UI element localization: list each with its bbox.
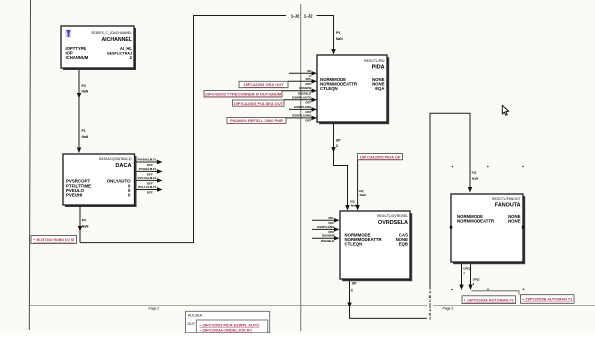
svg-text:NaN: NaN (336, 37, 343, 41)
svg-text:PVLLALM.FL: PVLLALM.FL (138, 185, 157, 189)
block AICHANNEL (61, 26, 136, 70)
svg-text:ESWTLGNS: ESWTLGNS (317, 225, 334, 229)
block OVRDSELA (340, 211, 412, 281)
svg-text:OFF: OFF (147, 191, 153, 195)
block PIDA (317, 55, 389, 124)
link box PIDA OP (358, 153, 403, 159)
svg-text:NaN: NaN (360, 193, 367, 197)
wire OP2 link to box B (472, 291, 520, 295)
grid dot row y289 (451, 289, 524, 291)
wire PIDA input row1 SP (289, 72, 312, 74)
svg-text:OUT: OUT (188, 322, 196, 326)
svg-text:PVHHALM.FL: PVHHALM.FL (137, 157, 156, 161)
wire PIDA input row2 SPL (288, 80, 312, 82)
svg-text:REGCTL/OVRDSEL: REGCTL/OVRDSEL (377, 214, 408, 218)
svg-text:19P/CA2003 PULSEA OUT: 19P/CA2003 PULSEA OUT (233, 101, 283, 106)
off-page connector label 4B2/4D2 (427, 290, 433, 321)
svg-text:ICHANNUM: ICHANNUM (66, 55, 89, 60)
wire PIDA input row3 (282, 90, 312, 92)
page left border line (29, 0, 30, 330)
link box PULSEA OUT (233, 100, 285, 106)
svg-text:+ 19PV2003A AUTOMAN #1: + 19PV2003A AUTOMAN #1 (464, 297, 515, 302)
FANOUTA side handles (450, 226, 452, 229)
svg-text:NONE: NONE (508, 219, 521, 224)
svg-text:19FC42003 ORA OUT: 19FC42003 ORA OUT (243, 82, 284, 87)
svg-text:19P.C3A2005 PIDA OP: 19P.C3A2005 PIDA OP (360, 154, 401, 159)
page horizontal divider (30, 305, 595, 307)
svg-text:AICHANNEL: AICHANNEL (101, 37, 132, 43)
svg-text:ESWPLGNS: ESWPLGNS (294, 105, 311, 109)
svg-text:ESNB/W: ESNB/W (299, 86, 311, 90)
svg-text:GESPL/CTRAJ: GESPL/CTRAJ (107, 51, 132, 55)
svg-text:OVRDSELA: OVRDSELA (378, 220, 408, 226)
svg-text:EQA: EQA (375, 86, 384, 91)
svg-text:CTLEQN: CTLEQN (345, 242, 363, 247)
svg-text:NaN: NaN (472, 177, 479, 181)
svg-text:PIDA: PIDA (372, 65, 385, 71)
svg-text:DISABW: DISABW (322, 234, 334, 238)
icon AICHANNEL blue (65, 30, 71, 38)
page vertical divider (300, 4, 302, 331)
wire FANOUTA OP2 out (470, 262, 472, 289)
link box bottom-left RUBN (31, 236, 77, 244)
wire OVRDSELA input stub 3 (312, 237, 335, 239)
svg-text:SPL: SPL (328, 216, 334, 220)
svg-text:SP: SP (307, 69, 311, 73)
wire PIDA input row5 (289, 108, 312, 110)
wire route right page into PIDA (317, 16, 334, 54)
svg-text:2: 2 (429, 299, 431, 303)
svg-text:DATAACQ/DATAACQ: DATAACQ/DATAACQ (99, 157, 132, 161)
wire DACA output row3 (135, 179, 158, 181)
svg-text:P1: P1 (82, 129, 86, 133)
wire link box to OVRDSELA.X2 (357, 160, 359, 210)
svg-text:OFF: OFF (305, 119, 311, 123)
svg-text:EQB: EQB (399, 242, 408, 247)
svg-text:AI_HL: AI_HL (120, 46, 133, 51)
wire long route left page (80, 16, 286, 243)
wire PIDA input row6 (286, 117, 312, 119)
svg-text:2: 2 (429, 317, 431, 321)
svg-text:19FC42003 TYPECONNER N OUT-ENU: 19FC42003 TYPECONNER N OUT-ENUM (205, 91, 282, 96)
svg-text:DISABLE: DISABLE (321, 239, 334, 243)
svg-text:SPL: SPL (305, 77, 311, 81)
wire DACA.PV output down (79, 205, 81, 243)
link box 19FC42003 ORA OUT (239, 81, 288, 87)
link box AUTOMAN A (462, 296, 516, 304)
wire OVRDSELA input stub 1 (312, 219, 335, 221)
svg-text:PN20000 REFSLL 2000 PNR: PN20000 REFSLL 2000 PNR (230, 118, 283, 123)
link box TYPECONNER (204, 90, 282, 97)
svg-text:NaN: NaN (82, 224, 89, 228)
svg-text:ESWPLAUTO: ESWPLAUTO (292, 95, 312, 99)
svg-text:FANOUTA: FANOUTA (495, 203, 521, 209)
svg-text:OP: OP (352, 282, 358, 286)
svg-text:DACA: DACA (115, 163, 131, 169)
svg-text:1-J2: 1-J2 (304, 13, 313, 18)
wire PIDA.OP to OVRDSELA.X1 (334, 122, 348, 210)
svg-text:+ 50J5T404 RUBN UV SI: + 50J5T404 RUBN UV SI (33, 238, 74, 242)
wire DACA output row2 (135, 170, 158, 172)
block DACA (63, 154, 137, 207)
svg-text:PVHIALM.FL: PVHIALM.FL (139, 167, 157, 171)
svg-text:NaN: NaN (82, 90, 89, 94)
svg-text:Page 2: Page 2 (149, 307, 160, 311)
svg-text:+ 19PV2003B AUTOMAN #1: + 19PV2003B AUTOMAN #1 (522, 297, 573, 302)
wire DACA output row1 (135, 161, 158, 163)
grid dot row y166 (452, 166, 524, 168)
svg-text:1-J2: 1-J2 (291, 13, 300, 18)
svg-text:ESWTLAANS: ESWTLAANS (292, 113, 311, 117)
wire DACA output row4 (135, 189, 158, 191)
svg-text:OP: OP (336, 139, 342, 143)
svg-text:REGCTL/FANOUT: REGCTL/FANOUT (492, 197, 520, 201)
wire FANOUTA OP1 out (461, 262, 463, 289)
link box REFSLL (227, 117, 286, 123)
svg-text:OFF: OFF (305, 101, 311, 105)
wire OVRDSELA.OP long route to FANOUTA (350, 113, 471, 318)
svg-text:Page 2: Page 2 (443, 307, 454, 311)
svg-text:REGCTL/PID: REGCTL/PID (364, 59, 385, 63)
svg-text:NORMMODEATTR: NORMMODEATTR (457, 219, 495, 224)
svg-text:X1[: X1[ (472, 171, 477, 175)
svg-text:CTLEQN: CTLEQN (320, 86, 338, 91)
svg-text:PULSEA: PULSEA (188, 314, 203, 318)
svg-text:SERIES_C_IOACHANNEL: SERIES_C_IOACHANNEL (91, 31, 132, 35)
svg-text:PVLOALM.FL: PVLOALM.FL (138, 176, 157, 180)
svg-text:• 19PV2003A-ONDELJOS RJ: • 19PV2003A-ONDELJOS RJ (200, 327, 252, 332)
wire PIDA input row4 (284, 99, 312, 101)
svg-text:PVEUHI: PVEUHI (66, 193, 82, 198)
link box AUTOMAN B (521, 295, 575, 304)
bottom white strip (0, 333, 595, 351)
wire OVRDSELA input stub 2 (312, 228, 335, 230)
PULSEA summary box (186, 311, 270, 333)
mouse cursor (502, 105, 508, 115)
svg-text:NaN: NaN (82, 135, 89, 139)
wire AICHANNEL.PV to DACA (78, 68, 80, 152)
block FANOUTA (451, 194, 525, 264)
